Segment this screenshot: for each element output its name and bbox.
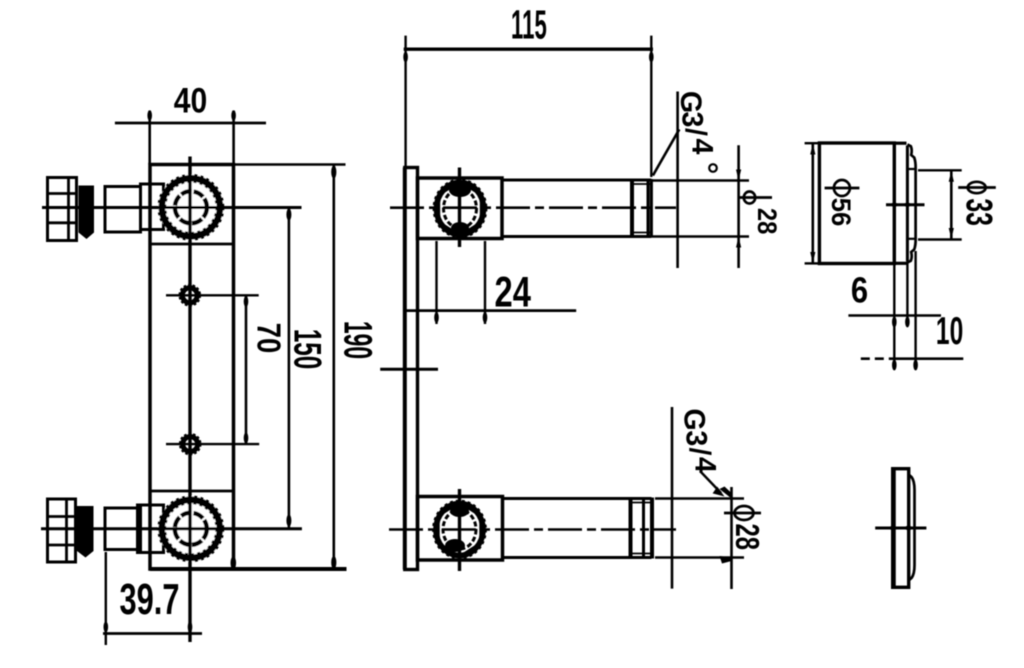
svg-text:28: 28: [752, 208, 782, 234]
svg-text:28: 28: [728, 524, 765, 550]
svg-text:40: 40: [174, 80, 207, 120]
svg-text:G3/4: G3/4: [678, 409, 722, 474]
svg-text:24: 24: [495, 268, 532, 316]
svg-text:6: 6: [851, 271, 868, 311]
svg-text:56: 56: [826, 198, 857, 227]
svg-text:150: 150: [286, 329, 329, 369]
svg-text:190: 190: [336, 321, 380, 359]
svg-text:33: 33: [958, 198, 1000, 226]
svg-text:10: 10: [936, 308, 963, 352]
svg-text:G3/4: G3/4: [674, 91, 718, 155]
svg-text:39.7: 39.7: [120, 576, 180, 625]
svg-text:70: 70: [250, 323, 286, 353]
svg-text:115: 115: [511, 1, 547, 47]
